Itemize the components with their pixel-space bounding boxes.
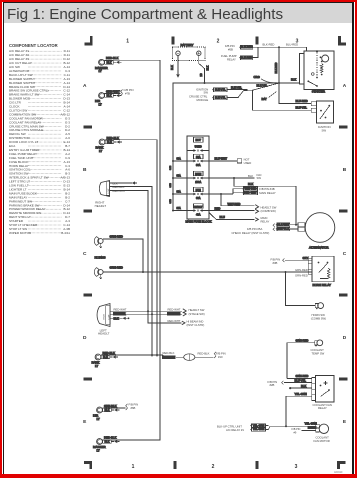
wire BLK to alternator <box>234 178 296 225</box>
wire RED headlt sw feed <box>209 210 255 212</box>
flag F/B PIN #6B <box>126 404 128 410</box>
svg-text:F/B PIN #5A: F/B PIN #5A <box>247 227 262 231</box>
wire RED-WHT left headlight to headlt sw flag <box>110 310 182 312</box>
lamp: park light top <box>99 139 105 145</box>
flag RED-WHT main relay <box>244 191 258 195</box>
svg-text:SW: SW <box>322 129 327 133</box>
svg-text:30A: 30A <box>177 157 182 160</box>
flag F/B PIN #7B (dir top) <box>121 90 123 96</box>
svg-text:MAIN: MAIN <box>261 216 268 220</box>
svg-text:BLK: BLK <box>105 408 110 412</box>
fuse 30A <box>194 154 204 159</box>
svg-text:HEADLT: HEADLT <box>194 205 203 208</box>
svg-text:F/B PIN: F/B PIN <box>129 403 139 407</box>
coolant fan relay <box>316 376 335 403</box>
svg-text:BLK-YEL: BLK-YEL <box>257 84 268 88</box>
svg-text:COOLANT: COOLANT <box>311 348 325 352</box>
svg-text:RELAY: RELAY <box>227 58 236 62</box>
lamp: direction light top <box>99 93 105 99</box>
alternator connector <box>298 223 305 227</box>
svg-text:IGN: IGN <box>257 173 262 177</box>
svg-text:WHT-RED: WHT-RED <box>244 187 256 191</box>
svg-text:COOLANT: COOLANT <box>316 435 330 439</box>
starter solenoid plunger (dashed) <box>316 53 318 77</box>
label RED-BLK highlighted <box>113 312 126 315</box>
svg-text:SW: SW <box>257 176 262 180</box>
svg-text:LT: LT <box>99 102 102 106</box>
wire BLU-YEL ignition sw feed 2 <box>253 90 312 110</box>
svg-text:BLK-YEL: BLK-YEL <box>231 85 242 89</box>
svg-text:A: A <box>83 83 87 89</box>
wire BLK ign sw feed <box>209 177 255 179</box>
connector chevron to headlt sw (stage sw) <box>183 309 186 313</box>
svg-text:RED-BLK: RED-BLK <box>198 351 210 355</box>
svg-text:RELAY: RELAY <box>261 220 270 224</box>
svg-text:ORG: ORG <box>254 75 260 79</box>
svg-text:BLK-RED: BLK-RED <box>275 62 278 73</box>
svg-text:BLK: BLK <box>105 440 110 444</box>
svg-text:WIPER MOTOR: WIPER MOTOR <box>9 231 32 235</box>
wire BLK fan motor ground flag <box>302 429 316 431</box>
svg-text:BLK-RED: BLK-RED <box>263 43 275 47</box>
wire from fuel pump relay flag up <box>253 47 258 57</box>
alternator <box>305 213 335 243</box>
flag BLK-WHT alternator <box>277 223 290 227</box>
svg-text:RED-BLK: RED-BLK <box>163 355 175 359</box>
flags YEL-GRN a/c control <box>217 424 244 432</box>
svg-text:GRN-RED: GRN-RED <box>296 374 309 378</box>
node J2 <box>278 82 280 84</box>
wire GRN-RED drop to horn switch <box>286 272 316 306</box>
flag F/B PIN #3B (horn relay) <box>271 257 281 264</box>
svg-text:#10: #10 <box>218 355 223 359</box>
svg-text:1: 1 <box>132 464 135 470</box>
svg-text:BLK-RED: BLK-RED <box>241 45 253 49</box>
svg-text:RED-WHT: RED-WHT <box>168 308 181 312</box>
svg-text:BLU-YEL: BLU-YEL <box>295 378 307 382</box>
battery <box>173 47 206 61</box>
svg-text:BLK-RED: BLK-RED <box>241 56 253 60</box>
svg-text:RED-WHT: RED-WHT <box>113 189 126 193</box>
svg-text:HEADLT: HEADLT <box>98 332 110 336</box>
lamp: marker light bottom <box>97 439 103 445</box>
wire BLK left headlight ground <box>110 317 122 319</box>
svg-text:HEADLT SW: HEADLT SW <box>189 308 205 312</box>
svg-text:BLK: BLK <box>103 355 108 359</box>
wire GRN-RED horn bus to horn relay <box>103 271 312 273</box>
svg-text:FUEL PUMP: FUEL PUMP <box>221 54 237 58</box>
svg-text:MAIN FUSE BLOCK: MAIN FUSE BLOCK <box>186 219 212 223</box>
svg-text:MODULE: MODULE <box>197 98 209 102</box>
svg-text:BLK-YEL: BLK-YEL <box>215 96 226 100</box>
connector chevron headlt sw <box>255 205 258 209</box>
svg-text:BLK: BLK <box>301 384 306 388</box>
svg-text:80A: 80A <box>196 156 201 159</box>
svg-text:WHT-BLK: WHT-BLK <box>277 227 289 231</box>
svg-text:BLK: BLK <box>107 140 112 144</box>
svg-text:BLK-YEL: BLK-YEL <box>215 88 226 92</box>
svg-text:A/C RELAY #1: A/C RELAY #1 <box>226 428 244 432</box>
svg-text:D: D <box>343 335 347 341</box>
wire GRN-BLK dir bottom to flag <box>102 407 125 409</box>
svg-text:BLU-RED: BLU-RED <box>286 43 298 47</box>
wire battery positive feed <box>199 61 205 84</box>
flag WHT-RED F/B PIN #4B <box>244 187 258 191</box>
svg-text:GRN-RED: GRN-RED <box>295 268 308 272</box>
svg-text:C: C <box>343 251 347 257</box>
right headlight <box>99 181 109 197</box>
grid column ticks bottom <box>173 461 176 469</box>
flag BLK-YEL ignition sw <box>189 88 208 102</box>
svg-text:RED-BLK: RED-BLK <box>107 136 119 140</box>
svg-text:HORN SW: HORN SW <box>312 313 326 317</box>
svg-text:F/B PIN: F/B PIN <box>268 380 278 384</box>
svg-text:3: 3 <box>295 464 298 470</box>
svg-text:0.5B: 0.5B <box>170 199 172 204</box>
svg-text:BTN: BTN <box>196 189 201 192</box>
svg-text:100A: 100A <box>195 181 201 184</box>
svg-text:RED: RED <box>215 206 221 210</box>
svg-text:CHECK RELAY (INST CLSTR): CHECK RELAY (INST CLSTR) <box>232 231 270 235</box>
wire GRY horn relay <box>285 259 312 261</box>
crop mark top-left <box>90 36 93 46</box>
svg-text:RED-WHT: RED-WHT <box>244 191 257 195</box>
svg-text:GRN-RED: GRN-RED <box>110 266 123 270</box>
fuse NOT USED <box>194 137 204 142</box>
svg-text:F/B PIN #4B: F/B PIN #4B <box>259 187 274 191</box>
svg-text:A: A <box>343 83 347 89</box>
svg-text:E: E <box>83 419 87 425</box>
crop mark bottom-right <box>337 461 340 469</box>
fuse BTN 60A <box>194 187 204 192</box>
svg-text:BLK-UP CTRL UNIT: BLK-UP CTRL UNIT <box>217 424 242 428</box>
svg-text:C: C <box>83 251 87 257</box>
wire BLK right headlight ground <box>110 182 132 184</box>
horn switch connector <box>315 304 318 308</box>
flag BLK-RED to F/B PIN #5B <box>221 44 237 61</box>
svg-text:LT: LT <box>99 69 102 73</box>
ignition switch contacts <box>320 110 322 112</box>
coolant temp switch connector <box>315 341 318 345</box>
svg-text:2: 2 <box>212 464 215 470</box>
svg-text:0.5B: 0.5B <box>170 183 172 188</box>
svg-text:BLK: BLK <box>291 78 296 82</box>
svg-text:0.5B: 0.5B <box>170 165 172 170</box>
horn upper <box>94 237 99 246</box>
svg-text:(COMB SW): (COMB SW) <box>311 317 326 321</box>
wire GRN-RED coolant temp sw <box>287 343 315 379</box>
svg-text:HORNS: HORNS <box>95 256 106 260</box>
wire BLK-RED junction drop <box>278 47 280 83</box>
lamp: park light bottom <box>95 354 101 360</box>
flag WHT-BLK alternator <box>277 227 290 231</box>
alternator feed flags <box>232 227 270 235</box>
svg-text:GRN-RED: GRN-RED <box>296 338 309 342</box>
svg-text:#2B: #2B <box>270 383 275 387</box>
svg-text:E: E <box>343 419 347 425</box>
svg-text:F/B PIN: F/B PIN <box>271 257 281 261</box>
svg-text:F/B PIN: F/B PIN <box>216 352 226 356</box>
svg-text:COMPONENT LOCATOR: COMPONENT LOCATOR <box>9 43 58 48</box>
svg-text:COOLANT FAN: COOLANT FAN <box>313 403 332 407</box>
svg-text:BLK: BLK <box>248 174 253 178</box>
fuse MAIN 100A <box>194 171 204 176</box>
wire RED-BLK marker top to long vertical <box>102 60 160 440</box>
svg-text:1: 1 <box>126 39 129 45</box>
wire YEL-GRN fan relay to motor <box>286 396 312 426</box>
starter contacts <box>312 73 315 76</box>
svg-text:#6B: #6B <box>131 406 136 410</box>
svg-text:GRN-BLK: GRN-BLK <box>104 404 117 408</box>
svg-text:RED-BLK: RED-BLK <box>106 56 118 60</box>
wire BLK-YEL diagonal to node J2 <box>248 83 280 90</box>
svg-text:LT: LT <box>95 364 98 368</box>
svg-text:2G: 2G <box>201 73 203 76</box>
wires into alternator connector <box>290 224 298 226</box>
wire WHT-RED main relay branch <box>209 193 233 195</box>
wire BLU-RED ignition sw feed <box>279 83 311 104</box>
svg-text:BLK: BLK <box>107 60 112 64</box>
left headlight <box>97 304 110 327</box>
svg-text:RED-WHT: RED-WHT <box>168 319 181 323</box>
svg-text:C/B PIN: C/B PIN <box>124 88 134 92</box>
grid column ticks top <box>171 37 174 45</box>
svg-text:30A: 30A <box>177 174 182 177</box>
svg-text:(COMB SW): (COMB SW) <box>261 209 276 213</box>
wire BLU-YEL fan relay <box>284 382 312 384</box>
svg-text:RED-BLK: RED-BLK <box>168 312 180 316</box>
svg-text:ALTERNATOR: ALTERNATOR <box>309 245 328 249</box>
node J1 battery feed <box>278 46 280 48</box>
svg-text:(INST CLSTR): (INST CLSTR) <box>187 323 205 327</box>
wire RED-BLK park bottom to F/B PIN flag <box>101 354 163 356</box>
lamp: direction light bottom <box>97 407 103 413</box>
svg-text:BLU: BLU <box>220 215 225 219</box>
starter switch lever <box>308 81 317 86</box>
svg-text:RELAY: RELAY <box>318 406 327 410</box>
svg-text:GRN-RED: GRN-RED <box>295 273 308 277</box>
svg-text:B: B <box>83 167 87 173</box>
starter motor <box>322 55 329 62</box>
component locator dotted leaders <box>28 51 62 233</box>
svg-text:HEADLT: HEADLT <box>95 204 107 208</box>
svg-text:30A: 30A <box>177 207 182 210</box>
wire RED-BLK left headlight to headlt sw flag <box>110 313 182 315</box>
svg-text:RED-BLK: RED-BLK <box>103 351 115 355</box>
wire BLU-WHT not used <box>209 160 237 162</box>
svg-text:HEADLT SW: HEADLT SW <box>261 205 277 209</box>
horn lower <box>94 268 99 277</box>
wire BLK battery to starter <box>205 82 297 84</box>
wire RED-BLK park top down bundle v157 <box>105 140 158 356</box>
svg-text:MAIN: MAIN <box>195 173 201 176</box>
starter <box>304 51 334 90</box>
horn relay coil <box>327 269 330 279</box>
svg-text:#9: #9 <box>294 431 297 434</box>
svg-text:BLU-WHT: BLU-WHT <box>215 157 228 161</box>
svg-text:YEL-GRN: YEL-GRN <box>305 422 317 426</box>
wire battery to main fuse bus <box>173 83 205 211</box>
wire GRN-RED horn upper <box>103 239 143 272</box>
ignition switch connector <box>311 102 316 106</box>
svg-text:60A: 60A <box>196 197 201 200</box>
labels RED-WHT / RED-BLK at headlt sw flag <box>168 308 181 312</box>
fuse bus stubs <box>173 160 187 162</box>
svg-text:LT: LT <box>97 448 100 452</box>
svg-text:HI BEAM IND: HI BEAM IND <box>187 320 204 324</box>
svg-text:30A: 30A <box>177 190 182 193</box>
svg-text:2: 2 <box>217 39 220 45</box>
svg-text:GRY: GRY <box>303 256 309 260</box>
horn relay <box>312 256 334 282</box>
svg-text:GRN-RED: GRN-RED <box>110 234 123 238</box>
flag F/B PIN #2B fan relay <box>268 380 278 387</box>
svg-text:USED: USED <box>195 146 202 149</box>
svg-text:LT: LT <box>97 417 100 421</box>
svg-text:#5B: #5B <box>228 47 233 51</box>
wire BLK battery negative to ground <box>177 61 179 75</box>
wire BLU main relay <box>209 213 255 220</box>
svg-text:LOW: LOW <box>108 189 110 194</box>
not used terminal <box>237 159 241 163</box>
inline connector (park circuit) <box>184 354 195 361</box>
svg-text:SW: SW <box>204 91 209 95</box>
battery ground symbol <box>176 74 180 78</box>
wire RED-BLK to F/B PIN #10 <box>195 356 214 358</box>
svg-text:USED: USED <box>244 161 252 165</box>
svg-text:40A: 40A <box>196 214 201 217</box>
coolant fan motor <box>316 424 319 427</box>
svg-text:MAIN RELAY: MAIN RELAY <box>259 191 276 195</box>
svg-text:BLK: BLK <box>308 426 313 430</box>
svg-text:BLU-RED: BLU-RED <box>296 99 308 103</box>
svg-text:B-4/11: B-4/11 <box>61 231 70 235</box>
svg-text:STARTER: STARTER <box>312 90 325 94</box>
svg-text:BLK: BLK <box>206 65 209 70</box>
svg-text:HORN RELAY: HORN RELAY <box>313 283 331 287</box>
svg-text:RED-BLK: RED-BLK <box>163 351 175 355</box>
svg-text:FAN MOTOR: FAN MOTOR <box>314 439 330 443</box>
svg-text:BLK: BLK <box>248 182 253 186</box>
crop mark bottom-left <box>89 461 92 469</box>
svg-text:BLK-WHT: BLK-WHT <box>277 223 289 227</box>
wire RED-BLK right headlight down v152 <box>110 187 152 357</box>
svg-text:YEL-GRN: YEL-GRN <box>253 427 265 431</box>
ignition switch <box>317 101 334 123</box>
svg-text:#7B: #7B <box>125 92 130 96</box>
wire WHT-RED headlt sw feed <box>221 194 255 206</box>
grid row ticks right <box>339 126 348 129</box>
svg-text:(STAGE SW): (STAGE SW) <box>189 312 205 316</box>
wire RED-WHT to hi beam ind <box>148 311 182 323</box>
svg-text:RED-BLK: RED-BLK <box>104 435 116 439</box>
coolant fan relay contacts <box>320 385 322 387</box>
svg-text:LT: LT <box>99 149 102 153</box>
horn relay contacts <box>318 262 320 264</box>
label RED-BLK highlighted (park bottom) <box>163 351 175 355</box>
wire BLK fan relay ground <box>290 387 312 389</box>
wire GRN-WHT dir top to flag <box>104 93 120 95</box>
svg-text:BAT: BAT <box>262 97 267 101</box>
svg-text:TEMP SW: TEMP SW <box>312 351 325 355</box>
wire RED-WHT right headlight down v148 <box>110 191 148 323</box>
svg-text:30A: 30A <box>196 164 201 167</box>
fuse HEADLT 40A <box>194 204 204 209</box>
svg-text:BLK: BLK <box>171 65 174 70</box>
wire GRN-RED into fan relay <box>287 378 312 380</box>
grid row ticks left <box>84 126 93 129</box>
svg-text:D: D <box>83 335 87 341</box>
svg-text:#3B: #3B <box>273 261 278 265</box>
svg-text:BLU-YEL: BLU-YEL <box>296 106 308 110</box>
svg-text:LOW: LOW <box>108 315 110 320</box>
wire BLU-RED into starter <box>304 47 307 51</box>
main fuse block <box>187 136 209 219</box>
svg-text:BATTERY: BATTERY <box>181 43 194 47</box>
starter solenoid coil <box>320 64 323 73</box>
svg-text:RED-BLK: RED-BLK <box>113 185 125 189</box>
svg-text:HIGH: HIGH <box>104 314 106 320</box>
svg-text:WHT-RED: WHT-RED <box>228 202 241 206</box>
lamp: marker light top <box>99 59 105 65</box>
svg-text:NOT: NOT <box>196 139 202 142</box>
wire BLK-YEL merge <box>227 89 247 91</box>
wire YEL-GRN to coolant fan motor <box>266 425 269 427</box>
svg-text:YEL-GRN: YEL-GRN <box>253 423 265 427</box>
flag BLK-YEL cruise ctrl module <box>214 96 228 100</box>
flag BLK-RED to fuel pump relay <box>241 56 253 60</box>
svg-text:BLK: BLK <box>107 94 112 98</box>
svg-text:YEL-GRN: YEL-GRN <box>295 392 307 396</box>
labels GRN-RED at horn relay <box>295 268 308 278</box>
svg-text:A60319: A60319 <box>334 471 343 474</box>
svg-text:B: B <box>343 167 347 173</box>
wire BLK into starter <box>297 82 300 84</box>
svg-text:GRN-WHT: GRN-WHT <box>106 89 120 93</box>
wire BLK-RED top feed <box>253 46 304 48</box>
crop mark top-right <box>338 36 341 46</box>
starter connector <box>300 54 305 85</box>
